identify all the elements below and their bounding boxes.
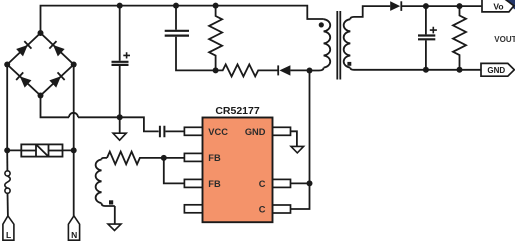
wire C-pins bus (transformer bottom to C pins): [309, 71, 311, 184]
svg-text:CR52177: CR52177: [215, 105, 260, 117]
node bridge top: [38, 30, 44, 36]
IC U1 pin FB (left 2): [184, 153, 203, 161]
fuse F1 (boxed fuse with diagonal): [21, 144, 62, 156]
svg-text:L: L: [6, 230, 11, 240]
wire top rail from bridge top to transformer primary top: [41, 6, 324, 33]
T1 core: [337, 11, 340, 80]
terminal L: [3, 216, 14, 240]
node bridge left: [4, 62, 10, 68]
node fuse-row right: [71, 147, 77, 153]
capacitor C3 plates: [418, 36, 435, 40]
svg-text:C: C: [259, 179, 266, 189]
T1 primary phase dot: [319, 22, 324, 27]
IC U1 pin VCC (left 1): [184, 127, 203, 135]
node bridge right: [71, 62, 77, 68]
wire FB junction to lower FB pin: [164, 158, 185, 184]
capacitor C1 plates: [112, 62, 129, 65]
breaker F2 on L line: [5, 171, 10, 194]
capacitor C2 (film) wires: [176, 6, 216, 71]
wire fuse row: [7, 149, 74, 151]
IC U1 pin C (right 4): [272, 205, 290, 213]
wire FB junction to upper FB pin: [164, 157, 185, 159]
wire secondary top to output diode: [350, 6, 390, 19]
wire bridge right node down to fuse row and N terminal: [73, 65, 75, 216]
transformer T1 secondary winding: [344, 19, 351, 67]
capacitor C3 (output electrolytic) wires: [425, 6, 427, 70]
node output top cap junction: [423, 3, 429, 9]
svg-text:C: C: [259, 205, 266, 215]
resistor R4 (FB): [107, 152, 164, 165]
resistor R1 (vertical, from rail): [209, 6, 222, 71]
terminal Vo backing flag (navy): [501, 0, 515, 10]
node C pins junction: [307, 180, 313, 186]
node rail-filmcap junction: [173, 3, 179, 9]
transformer T1 primary winding: [310, 19, 331, 70]
node bridge bottom: [38, 93, 44, 99]
wire secondary bottom output rail: [350, 68, 481, 70]
wire bridge bottom to primary ground node (with hop over N line): [41, 96, 120, 118]
svg-text:N: N: [71, 230, 77, 240]
node transformer primary bottom junction: [307, 68, 313, 74]
wire L1 to ground: [114, 206, 116, 224]
svg-text:FB: FB: [208, 179, 221, 189]
ground G3: [108, 224, 121, 230]
svg-text:FB: FB: [208, 153, 221, 163]
node output bottom resistor junction: [457, 67, 463, 73]
diode D5 (clamp, pointing left): [278, 65, 309, 75]
node output top resistor junction: [457, 3, 463, 9]
node FB junction: [161, 155, 167, 161]
capacitor C1 (bulk electrolytic) wires: [119, 6, 121, 118]
wire bridge left node down to fuse row: [6, 65, 8, 151]
svg-text:VOUT: VOUT: [494, 35, 515, 44]
ground G2: [291, 146, 304, 153]
node output bottom cap junction: [423, 67, 429, 73]
node rail-R1 junction: [213, 3, 219, 9]
capacitor C2 plates: [165, 31, 189, 36]
node rail-bulkcap junction: [117, 3, 123, 9]
diode D6 (output rectifier): [390, 1, 481, 11]
inductor L1 (aux winding): [96, 158, 115, 206]
terminal N: [68, 216, 79, 240]
C3 plus sign: [430, 27, 437, 34]
op IC U1 body CR52177: [203, 118, 273, 223]
node primary ground junction: [117, 114, 123, 120]
IC U1 pin GND (right 1): [272, 127, 290, 135]
resistor R2 (horizontal snubber): [216, 64, 278, 76]
resistor R3 (output load): [453, 6, 466, 70]
wire breaker to L terminal: [7, 193, 9, 216]
diode D2 (bridge top-right): [49, 41, 64, 56]
svg-text:Vo: Vo: [493, 1, 503, 11]
wire C4 to VCC pin: [166, 130, 185, 132]
svg-text:GND: GND: [487, 66, 505, 75]
node R1/C2 bottom junction: [213, 67, 219, 73]
wire lower C pin to bus: [291, 183, 310, 209]
IC U1 pin C (right 3): [272, 179, 290, 187]
L1 phase square: [109, 200, 113, 204]
svg-text:GND: GND: [245, 127, 266, 137]
IC U1 pin FB (left 3): [184, 179, 203, 187]
terminal Vo: [482, 0, 514, 12]
wire VCC coupling path: [120, 117, 159, 131]
wire hop over N line: [69, 113, 78, 118]
wire L line below fuse row: [6, 150, 8, 170]
wire upper C pin to bus: [291, 182, 310, 184]
diode D4 (bridge bottom-right): [49, 72, 64, 87]
T1 secondary phase square: [347, 62, 351, 66]
terminal GND: [481, 63, 514, 76]
capacitor C4 (VCC) plates: [160, 126, 165, 138]
wire GND pin to ground: [291, 131, 297, 146]
ground G1: [119, 117, 121, 133]
diode D3 (bridge bottom-left): [16, 72, 31, 87]
svg-text:VCC: VCC: [208, 127, 228, 137]
node fuse-row left: [4, 147, 10, 153]
bridge rectifier BR1 arms: [7, 33, 74, 96]
C1 plus sign: [123, 52, 130, 58]
diode D1 (bridge top-left): [16, 41, 31, 56]
IC U1 pin nc (left 4): [184, 205, 203, 213]
